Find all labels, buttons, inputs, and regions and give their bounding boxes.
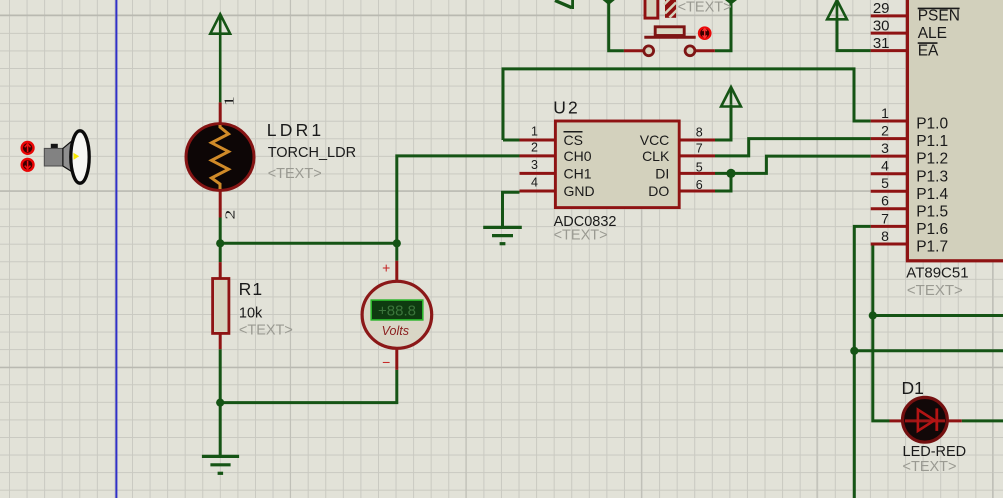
svg-text:P1.5: P1.5: [916, 203, 948, 220]
svg-text:GND: GND: [564, 183, 595, 199]
svg-text:1: 1: [881, 105, 889, 121]
svg-text:+88.8: +88.8: [378, 302, 416, 319]
svg-text:<TEXT>: <TEXT>: [903, 459, 957, 475]
svg-text:PSEN: PSEN: [918, 8, 960, 25]
svg-text:−: −: [382, 354, 390, 370]
svg-text:4: 4: [881, 158, 889, 174]
svg-text:1: 1: [221, 96, 237, 106]
svg-text:LED-RED: LED-RED: [903, 444, 967, 460]
svg-text:<TEXT>: <TEXT>: [268, 166, 322, 182]
svg-text:2: 2: [222, 210, 238, 220]
svg-text:2: 2: [881, 123, 889, 139]
svg-text:5: 5: [881, 175, 889, 191]
svg-text:D1: D1: [902, 378, 924, 398]
svg-text:P1.3: P1.3: [916, 168, 948, 185]
svg-text:CLK: CLK: [642, 148, 670, 164]
svg-text:P1.6: P1.6: [916, 221, 948, 238]
svg-text:31: 31: [873, 35, 890, 52]
svg-text:6: 6: [881, 193, 889, 209]
svg-text:+: +: [382, 259, 390, 275]
svg-text:P1.1: P1.1: [916, 133, 948, 150]
svg-text:TORCH_LDR: TORCH_LDR: [268, 145, 356, 161]
svg-text:<TEXT>: <TEXT>: [239, 322, 293, 338]
svg-text:1: 1: [531, 124, 538, 138]
svg-text:8: 8: [696, 126, 703, 140]
svg-text:P1.4: P1.4: [916, 186, 948, 203]
svg-text:EA: EA: [918, 42, 939, 59]
svg-text:29: 29: [873, 0, 890, 17]
svg-text:10k: 10k: [239, 305, 263, 321]
svg-text:8: 8: [881, 228, 889, 244]
svg-text:3: 3: [881, 140, 889, 156]
svg-text:DO: DO: [648, 183, 669, 199]
svg-text:7: 7: [696, 142, 703, 156]
svg-text:U2: U2: [553, 98, 580, 118]
svg-text:CS: CS: [564, 132, 583, 148]
svg-text:CH1: CH1: [564, 165, 592, 181]
svg-text:DI: DI: [655, 165, 669, 181]
svg-text:Volts: Volts: [382, 324, 409, 338]
svg-text:P1.2: P1.2: [916, 151, 948, 168]
svg-text:ALE: ALE: [918, 25, 947, 42]
svg-text:VCC: VCC: [640, 132, 670, 148]
svg-text:LDR1: LDR1: [267, 120, 325, 140]
svg-text:4: 4: [531, 175, 538, 189]
svg-text:<TEXT>: <TEXT>: [554, 227, 608, 243]
svg-text:P1.7: P1.7: [916, 239, 948, 256]
svg-text:<TEXT>: <TEXT>: [907, 282, 963, 299]
svg-text:3: 3: [531, 158, 538, 172]
svg-text:R1: R1: [239, 279, 264, 299]
svg-text:AT89C51: AT89C51: [906, 264, 968, 281]
svg-text:6: 6: [696, 178, 703, 192]
svg-text:2: 2: [531, 140, 538, 154]
svg-text:CH0: CH0: [564, 148, 592, 164]
svg-text:30: 30: [873, 17, 890, 34]
svg-text:P1.0: P1.0: [916, 116, 948, 133]
svg-text:5: 5: [696, 161, 703, 175]
svg-text:<TEXT>: <TEXT>: [678, 0, 732, 16]
svg-text:7: 7: [881, 210, 889, 226]
